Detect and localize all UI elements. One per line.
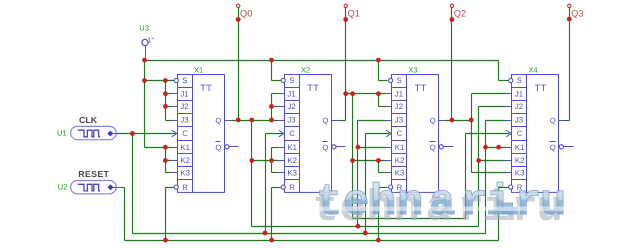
wire Q0 to X3 J3 <box>358 120 386 122</box>
wire X1 R riser <box>165 188 167 241</box>
svg-text:Q2: Q2 <box>454 9 466 19</box>
wire X4 J3-K1 vertical <box>485 121 487 234</box>
svg-text:S: S <box>182 76 187 85</box>
wire X4 C riser from Q1 rail <box>465 134 467 219</box>
wire X3 S drop <box>378 61 380 81</box>
svg-text:Q: Q <box>550 143 556 152</box>
svg-text:Q: Q <box>322 116 328 125</box>
wire X1 K1 feed <box>145 147 173 149</box>
svg-text:X1: X1 <box>194 66 203 75</box>
wire CLK bottom rail <box>133 233 486 235</box>
svg-text:J3: J3 <box>515 116 523 125</box>
svg-text:K1: K1 <box>395 143 405 152</box>
wire X3 C riser <box>365 134 367 234</box>
wire X4 J1-K3 vertical <box>471 94 473 173</box>
junction at (498.6,147.2) <box>496 145 501 150</box>
wire X4 K2 feed <box>479 160 506 162</box>
wire X1 K bus <box>165 148 167 173</box>
junction at (378.4,60.1) <box>376 58 381 63</box>
wire Q1 to X3 J1 <box>346 93 386 95</box>
wire X1 J2 stub <box>166 106 173 108</box>
junction at (165.4,93.7) <box>163 91 168 96</box>
svg-text:J1: J1 <box>515 89 523 98</box>
svg-text:J3: J3 <box>287 116 295 125</box>
junction at (132.4,133.5) <box>130 131 135 136</box>
wire X1 K2 stub <box>166 160 173 162</box>
junction at (165.4,160.5) <box>163 158 168 163</box>
wire X2 K1 stub <box>272 147 279 149</box>
svg-text:Q: Q <box>215 116 221 125</box>
svg-text:J1: J1 <box>287 89 295 98</box>
svg-text:Q: Q <box>550 116 556 125</box>
svg-text:R: R <box>182 183 188 192</box>
wire X2 J2 stub <box>272 106 279 108</box>
wire X3 J bus <box>378 94 380 107</box>
junction at (271.6,240.1) <box>269 238 274 243</box>
wire Q1 bottom rail <box>353 218 466 220</box>
junction at (345.7,93.7) <box>343 91 348 96</box>
reset source U2 <box>71 181 117 194</box>
svg-text:J2: J2 <box>180 102 188 111</box>
svg-text:X3: X3 <box>408 66 417 75</box>
wire X4 J2 feed <box>479 106 506 108</box>
wire Q1 from X2 Q <box>339 120 346 122</box>
junction at (357.9,147.2) <box>356 145 361 150</box>
svg-text:K1: K1 <box>515 143 525 152</box>
clock source U1 <box>71 126 117 139</box>
wire Q1 drop <box>352 94 354 219</box>
svg-text:K1: K1 <box>287 143 297 152</box>
wire X4 J1 feed <box>472 93 506 95</box>
wire CLK drop <box>132 134 134 234</box>
wire X2 K3 stub <box>272 172 279 174</box>
svg-text:TT: TT <box>307 83 319 93</box>
svg-text:TT: TT <box>415 83 427 93</box>
JK flip-flop X3 <box>386 75 454 193</box>
svg-text:K2: K2 <box>395 156 405 165</box>
wire X4 J2-K2 vertical <box>478 107 480 227</box>
svg-text:C: C <box>517 129 523 138</box>
svg-text:X2: X2 <box>301 66 310 75</box>
junction at (265.0,233.0) <box>263 231 268 236</box>
svg-text:U1: U1 <box>57 129 67 138</box>
svg-text:S: S <box>517 76 522 85</box>
junction at (251.8,120.0) <box>249 118 254 123</box>
svg-text:CLK: CLK <box>79 115 98 125</box>
terminal Q2 <box>450 4 453 7</box>
logic-1 source U3 <box>142 39 148 45</box>
junction at (271.5,120.0) <box>269 118 274 123</box>
wire X2 C riser <box>265 134 267 234</box>
svg-text:S: S <box>289 76 294 85</box>
svg-text:X4: X4 <box>529 66 538 75</box>
junction at (451.9,120.0) <box>450 118 455 123</box>
junction at (478.7,160.5) <box>476 158 481 163</box>
svg-text:K3: K3 <box>180 168 190 177</box>
wire X4 K1 feed <box>486 147 506 149</box>
svg-text:K3: K3 <box>287 168 297 177</box>
junction at (271.5,160.5) <box>269 158 274 163</box>
svg-text:K3: K3 <box>395 168 405 177</box>
svg-text:TT: TT <box>535 83 547 93</box>
junction at (378.4,93.7) <box>376 91 381 96</box>
wire CLK to X1 C <box>117 133 176 135</box>
junction at (352.6,93.7) <box>350 91 355 96</box>
svg-text:C: C <box>397 129 403 138</box>
svg-text:Q: Q <box>322 143 328 152</box>
svg-text:J2: J2 <box>287 102 295 111</box>
wire X1 J3 stub <box>166 120 173 122</box>
svg-text:J2: J2 <box>395 102 403 111</box>
wire X3 K bus <box>378 161 380 173</box>
wire X1 J1 stub <box>166 93 173 95</box>
junction at (165.4,147.2) <box>163 145 168 150</box>
wire Q0 to X2 K2 <box>252 160 279 162</box>
svg-text:J1: J1 <box>395 89 403 98</box>
junction at (485.5,147.2) <box>483 145 488 150</box>
terminal Q3 <box>568 4 571 7</box>
junction at (144.5,60.1) <box>142 58 147 63</box>
svg-text:Q: Q <box>430 143 436 152</box>
wire 1-net top rail <box>145 60 499 62</box>
terminal Q0 <box>237 4 240 7</box>
svg-text:tehnari.ru: tehnari.ru <box>316 178 566 228</box>
junction at (144.5,80.5) <box>142 78 147 83</box>
wire Q2 terminal riser <box>451 8 453 121</box>
svg-text:RESET: RESET <box>78 169 109 179</box>
junction at (345.7,19.5) <box>343 17 348 22</box>
svg-text:J3: J3 <box>395 116 403 125</box>
svg-text:Q: Q <box>430 116 436 125</box>
svg-text:J1: J1 <box>180 89 188 98</box>
wire X2 J1 stub <box>272 93 279 95</box>
wire Q1 to X3 K2 <box>353 160 386 162</box>
svg-text:TT: TT <box>200 83 212 93</box>
junction at (165.4,106.4) <box>163 104 168 109</box>
JK flip-flop X1 <box>171 75 239 193</box>
junction at (569.3,19.0) <box>567 17 572 22</box>
svg-text:R: R <box>289 183 295 192</box>
junction at (251.8,160.5) <box>249 158 254 163</box>
svg-text:K2: K2 <box>515 156 525 165</box>
wire Q0 to X3 K1 <box>358 147 386 149</box>
JK flip-flop X2 <box>278 75 346 193</box>
wire RESET to drop <box>122 187 125 189</box>
wire X4 R riser <box>498 188 500 241</box>
junction at (238.2,19.5) <box>236 17 241 22</box>
svg-text:Q3: Q3 <box>571 9 583 19</box>
junction at (357.9,226.2) <box>356 224 361 229</box>
svg-text:Q: Q <box>215 143 221 152</box>
wire Q0 from X1 Q to X2 J3 <box>232 120 279 122</box>
junction at (378.4,160.5) <box>376 158 381 163</box>
wire X2 K bus <box>271 148 273 173</box>
svg-text:K2: K2 <box>180 156 190 165</box>
junction at (271.5,60.1) <box>269 58 274 63</box>
junction at (378.4,240.1) <box>376 238 381 243</box>
junction at (238.2,120.0) <box>236 118 241 123</box>
wire X1 K3 stub <box>166 172 173 174</box>
wire Q0 drop <box>251 121 253 227</box>
svg-text:S: S <box>397 76 402 85</box>
wire Q2 from X3 Q <box>446 120 472 122</box>
svg-text:K1: K1 <box>180 143 190 152</box>
junction at (365.3,233.0) <box>363 231 368 236</box>
svg-text:1″: 1″ <box>147 35 154 44</box>
svg-text:U2: U2 <box>58 182 68 191</box>
wire X3 K3 stub <box>379 172 386 174</box>
svg-text:C: C <box>182 129 188 138</box>
wire X2 S drop <box>271 61 273 81</box>
wire X2 J bus <box>271 94 273 121</box>
wire Q0 terminal riser <box>238 8 240 121</box>
wire 1-net drop to X1 <box>144 61 146 148</box>
junction at (165.4,80.5) <box>163 78 168 83</box>
junction at (352.6,160.5) <box>350 158 355 163</box>
JK flip-flop X4 <box>506 75 574 193</box>
wire X4 J3 feed <box>486 120 506 122</box>
wire Q1 terminal riser <box>345 8 347 121</box>
wire X3 J2 stub <box>379 106 386 108</box>
wire X3 R riser <box>378 188 380 241</box>
wire Q0 bottom rail <box>252 226 479 228</box>
svg-text:K2: K2 <box>287 156 297 165</box>
wire RESET bottom rail <box>125 240 499 242</box>
wire Q3 from X4 Q <box>566 120 570 122</box>
junction at (165.4,240.1) <box>163 238 168 243</box>
wire X1 S feed <box>145 80 174 82</box>
junction at (451.9,19.5) <box>450 17 455 22</box>
svg-text:J2: J2 <box>515 102 523 111</box>
wire Q3 terminal riser <box>569 8 571 121</box>
svg-text:Q1: Q1 <box>348 9 360 19</box>
wire Q0 riser to X3 <box>357 121 359 227</box>
wire X2 R riser <box>271 188 273 241</box>
wire X4 S drop <box>498 61 500 81</box>
junction at (471.2,120.0) <box>469 118 474 123</box>
wire X4 K3 feed <box>472 172 506 174</box>
svg-text:U3: U3 <box>139 23 149 32</box>
svg-text:C: C <box>289 129 295 138</box>
junction at (271.5,106.4) <box>269 104 274 109</box>
svg-text:Q0: Q0 <box>240 9 252 19</box>
svg-text:J3: J3 <box>180 116 188 125</box>
terminal Q1 <box>344 4 347 7</box>
wire X1 SJ bus <box>165 81 167 121</box>
svg-text:K3: K3 <box>515 168 525 177</box>
